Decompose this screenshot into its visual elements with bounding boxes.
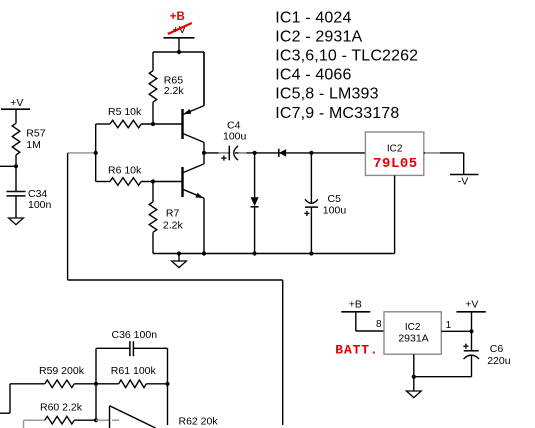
svg-text:1M: 1M xyxy=(26,139,41,151)
svg-text:+B: +B xyxy=(170,11,185,23)
svg-text:2.2k: 2.2k xyxy=(164,85,185,97)
svg-text:C34: C34 xyxy=(28,188,47,200)
svg-text:100u: 100u xyxy=(323,204,347,216)
svg-text:IC7,9 - MC33178: IC7,9 - MC33178 xyxy=(275,105,399,122)
svg-text:-V: -V xyxy=(458,175,469,187)
svg-text:IC2 - 2931A: IC2 - 2931A xyxy=(275,29,362,46)
svg-text:100n: 100n xyxy=(28,199,52,211)
svg-text:IC4 - 4066: IC4 - 4066 xyxy=(275,67,351,84)
svg-text:R57: R57 xyxy=(26,128,45,140)
svg-text:2931A: 2931A xyxy=(398,333,428,345)
svg-text:IC1 - 4024: IC1 - 4024 xyxy=(275,10,351,27)
svg-text:+V: +V xyxy=(10,97,23,109)
svg-text:IC3,6,10 - TLC2262: IC3,6,10 - TLC2262 xyxy=(275,48,418,65)
svg-text:R61 100k: R61 100k xyxy=(111,365,157,377)
svg-text:100u: 100u xyxy=(223,131,247,143)
svg-text:1: 1 xyxy=(446,320,452,331)
svg-text:C6: C6 xyxy=(490,343,504,355)
svg-text:R5 10k: R5 10k xyxy=(108,106,142,118)
svg-text:+B: +B xyxy=(349,299,362,311)
svg-text:R60 2.2k: R60 2.2k xyxy=(40,401,83,413)
svg-text:BATT.: BATT. xyxy=(335,343,378,358)
svg-text:C36 100n: C36 100n xyxy=(112,329,158,341)
svg-text:2.2k: 2.2k xyxy=(163,219,184,231)
svg-text:IC2: IC2 xyxy=(405,322,421,333)
svg-text:+V: +V xyxy=(465,299,478,311)
svg-text:8: 8 xyxy=(376,319,382,330)
svg-text:C5: C5 xyxy=(328,193,342,205)
svg-text:79L05: 79L05 xyxy=(373,156,418,172)
svg-text:R59 200k: R59 200k xyxy=(39,365,85,377)
svg-text:IC2: IC2 xyxy=(387,143,403,154)
svg-text:220u: 220u xyxy=(487,355,511,367)
svg-text:IC5,8 - LM393: IC5,8 - LM393 xyxy=(275,86,378,103)
svg-text:R7: R7 xyxy=(166,208,180,220)
svg-text:R62 20k: R62 20k xyxy=(179,416,219,428)
svg-text:R6 10k: R6 10k xyxy=(108,164,142,176)
